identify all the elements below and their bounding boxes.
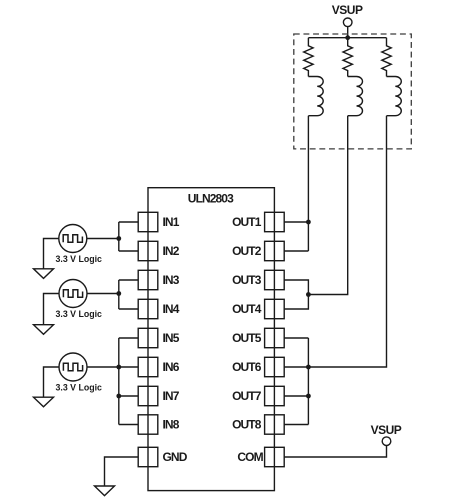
wire L2 down to OUT3/OUT4 junction	[308, 116, 347, 295]
svg-text:IN4: IN4	[163, 302, 180, 316]
IC U1 ULN2803 body	[148, 188, 274, 491]
junction dot OUT6	[306, 365, 311, 370]
wire V3 to ground	[44, 367, 60, 397]
wire IN5-IN8 branch vertical	[118, 338, 120, 425]
wire OUT5 stub	[284, 337, 308, 339]
svg-text:IN6: IN6	[163, 360, 180, 374]
wire VSUP terminal to bus	[347, 27, 349, 38]
inductor L1	[308, 77, 323, 116]
pin IN2 box	[138, 241, 158, 260]
pin OUT4 box	[265, 299, 285, 318]
wire IN3 stub	[119, 279, 138, 281]
wire V2 to ground	[44, 294, 60, 325]
svg-text:OUT4: OUT4	[232, 302, 262, 316]
square wave glyph V1	[63, 235, 82, 242]
square wave glyph V3	[63, 363, 82, 370]
svg-text:OUT7: OUT7	[232, 389, 262, 403]
junction dot IN7	[116, 394, 121, 399]
ground GND	[95, 486, 115, 496]
inductor L2	[348, 77, 363, 116]
svg-text:OUT8: OUT8	[232, 418, 262, 432]
svg-text:IN3: IN3	[163, 273, 180, 287]
wire OUT6 stub	[284, 366, 308, 368]
pin IN5 box	[138, 328, 158, 347]
pin OUT5 box	[265, 328, 285, 347]
svg-text:OUT6: OUT6	[232, 360, 262, 374]
junction dot V1 branch	[116, 236, 121, 241]
svg-text:COM: COM	[237, 450, 263, 464]
wire V2 to IN3/IN4 branch	[87, 293, 119, 295]
load box (dashed)	[294, 34, 412, 149]
wire L1 down to OUT1/OUT2	[307, 116, 309, 251]
wire OUT4 stub	[284, 295, 308, 310]
wire OUT8 stub	[284, 424, 308, 426]
inductor L3	[387, 77, 402, 116]
pin OUT2 box	[265, 241, 285, 260]
pin IN1 box	[138, 212, 158, 231]
source V2 3.3V logic circle	[59, 280, 87, 308]
pin OUT7 box	[265, 386, 285, 405]
wire GND pin to ground	[105, 457, 139, 486]
junction dot V3 at IN6	[116, 365, 121, 370]
square wave glyph V2	[63, 290, 82, 297]
pin IN3 box	[138, 270, 158, 289]
pin OUT1 box	[265, 212, 285, 231]
wire IN8 stub	[119, 424, 138, 426]
svg-text:OUT3: OUT3	[232, 273, 262, 287]
wire COM to VSUP terminal	[284, 446, 386, 458]
wire OUT7 stub	[284, 395, 308, 397]
svg-text:IN1: IN1	[163, 215, 180, 229]
wire IN1 stub	[119, 221, 138, 223]
junction dot OUT7	[306, 394, 311, 399]
pin GND box	[138, 447, 158, 466]
pin OUT8 box	[265, 415, 285, 434]
source V3 3.3V logic circle	[59, 353, 87, 381]
svg-text:3.3 V Logic: 3.3 V Logic	[56, 309, 103, 319]
junction dot OUT3/OUT4	[306, 292, 311, 297]
wire V1 to IN1/IN2 branch	[87, 238, 119, 240]
svg-text:OUT1: OUT1	[232, 215, 262, 229]
wire OUT2 stub	[284, 250, 308, 252]
wire V3 to IN6	[87, 366, 138, 368]
pin IN6 box	[138, 357, 158, 376]
svg-text:OUT5: OUT5	[232, 331, 262, 345]
svg-text:IN5: IN5	[163, 331, 180, 345]
wire L3 down to OUT5-OUT8 bus	[308, 116, 386, 367]
pin IN4 box	[138, 299, 158, 318]
junction dot V2 branch	[116, 291, 121, 296]
pin COM box	[265, 447, 285, 466]
pin OUT6 box	[265, 357, 285, 376]
ground V3	[34, 397, 54, 407]
wire OUT1 stub	[284, 221, 308, 223]
resistor R1	[304, 38, 313, 77]
pin OUT3 box	[265, 270, 285, 289]
wire V1 to ground	[44, 239, 59, 269]
svg-text:GND: GND	[163, 450, 188, 464]
svg-text:IN7: IN7	[163, 389, 180, 403]
resistor R2	[343, 38, 352, 77]
wire IN2 stub	[119, 250, 138, 252]
wire OUT3 stub	[284, 280, 308, 295]
svg-text:ULN2803: ULN2803	[188, 192, 234, 206]
wire IN3/IN4 branch vertical	[118, 280, 120, 309]
junction dot OUT1	[306, 220, 311, 225]
wire IN7 stub	[119, 395, 138, 397]
node VSUP (bottom) terminal circle	[382, 437, 391, 446]
svg-text:VSUP: VSUP	[371, 423, 402, 437]
svg-text:IN2: IN2	[163, 244, 180, 258]
resistor R3	[382, 38, 391, 77]
wire IN1/IN2 branch vertical	[118, 222, 120, 251]
node VSUP (top) terminal circle	[343, 18, 352, 27]
svg-text:VSUP: VSUP	[332, 3, 363, 17]
wire IN5 stub	[119, 337, 138, 339]
pin IN8 box	[138, 415, 158, 434]
svg-text:IN8: IN8	[163, 418, 180, 432]
pin IN7 box	[138, 386, 158, 405]
svg-text:OUT2: OUT2	[232, 244, 262, 258]
svg-text:3.3 V Logic: 3.3 V Logic	[56, 383, 103, 393]
wire IN4 stub	[119, 308, 138, 310]
source V1 3.3V logic circle	[59, 225, 87, 253]
ground V1	[34, 269, 54, 279]
junction dot on supply bus	[345, 35, 350, 40]
svg-text:3.3 V Logic: 3.3 V Logic	[56, 254, 103, 264]
ground V2	[34, 325, 54, 335]
wire OUT5-OUT8 bus	[307, 338, 309, 425]
wire top supply bus	[308, 37, 386, 39]
